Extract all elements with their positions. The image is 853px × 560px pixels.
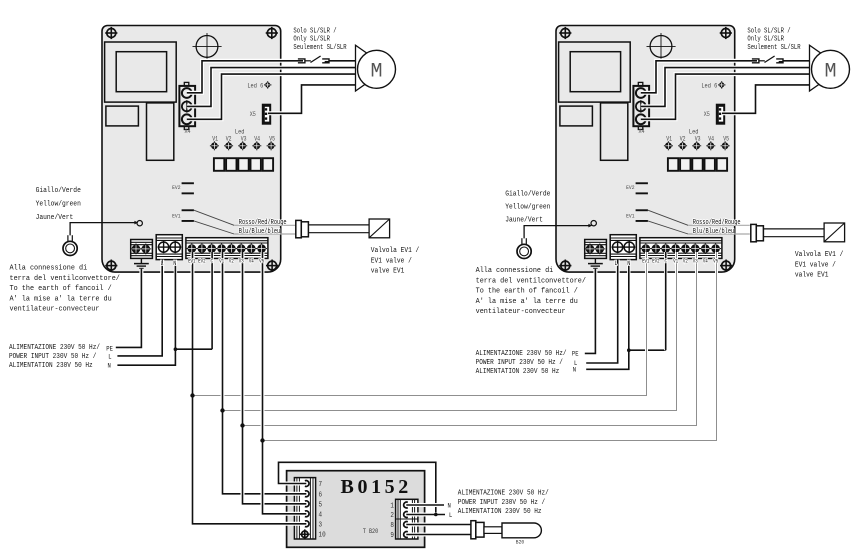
svg-text:N: N: [108, 362, 112, 370]
svg-text:PE: PE: [572, 350, 579, 358]
svg-text:Valvola EV1 /: Valvola EV1 /: [371, 247, 419, 256]
svg-text:EV2: EV2: [626, 184, 634, 190]
svg-text:Alla connessione di: Alla connessione di: [476, 267, 554, 275]
svg-text:terra del ventilconvettore/: terra del ventilconvettore/: [10, 275, 120, 283]
svg-text:Blu/Blue/bleu: Blu/Blue/bleu: [693, 227, 735, 235]
svg-text:5: 5: [319, 501, 323, 509]
svg-text:ventilateur-convecteur: ventilateur-convecteur: [10, 305, 100, 313]
svg-text:V5: V5: [713, 258, 718, 265]
svg-text:V4: V4: [249, 258, 254, 265]
svg-text:ALIMENTAZIONE 230V 50 Hz/: ALIMENTAZIONE 230V 50 Hz/: [458, 489, 549, 498]
svg-text:Jaune/Vert: Jaune/Vert: [36, 214, 74, 223]
svg-text:Seulement SL/SLR: Seulement SL/SLR: [293, 43, 346, 51]
svg-text:POWER INPUT 230V 50 Hz /: POWER INPUT 230V 50 Hz /: [476, 359, 563, 368]
svg-text:EV2: EV2: [198, 258, 206, 265]
svg-text:N: N: [573, 366, 577, 374]
svg-text:POWER INPUT 230V 50 Hz /: POWER INPUT 230V 50 Hz /: [9, 353, 96, 362]
svg-text:A' la mise a' la terre du: A' la mise a' la terre du: [476, 298, 578, 306]
svg-text:Giallo/Verde: Giallo/Verde: [505, 190, 550, 199]
svg-text:Rosso/Red/Rouge: Rosso/Red/Rouge: [693, 219, 741, 227]
svg-text:V2: V2: [229, 258, 234, 265]
svg-text:Led 6: Led 6: [701, 82, 717, 90]
svg-text:EV2: EV2: [652, 258, 660, 265]
svg-text:Giallo/Verde: Giallo/Verde: [36, 187, 81, 196]
svg-text:Seulement SL/SLR: Seulement SL/SLR: [747, 43, 800, 51]
svg-text:V1: V1: [666, 135, 672, 143]
svg-text:B0152: B0152: [341, 476, 412, 498]
svg-text:V2: V2: [226, 135, 232, 143]
svg-text:Solo SL/SLR /: Solo SL/SLR /: [293, 27, 336, 35]
svg-text:V4: V4: [703, 258, 708, 265]
svg-text:2: 2: [390, 512, 394, 520]
svg-text:V3: V3: [695, 135, 701, 143]
svg-text:Only SL/SLR: Only SL/SLR: [293, 35, 330, 43]
svg-text:V2: V2: [683, 258, 688, 265]
svg-text:L: L: [160, 259, 163, 267]
svg-text:4: 4: [319, 511, 323, 519]
svg-text:V3: V3: [241, 135, 247, 143]
svg-text:T B20: T B20: [363, 528, 378, 536]
svg-text:Jaune/Vert: Jaune/Vert: [505, 216, 543, 225]
svg-text:V4: V4: [254, 135, 260, 143]
svg-text:V3: V3: [239, 258, 244, 265]
svg-text:Valvola EV1 /: Valvola EV1 /: [795, 251, 843, 260]
svg-text:V1: V1: [212, 135, 218, 143]
svg-text:valve EV1: valve EV1: [795, 271, 829, 280]
svg-text:PE: PE: [106, 345, 113, 353]
svg-text:Led 6: Led 6: [247, 82, 263, 90]
svg-text:V5: V5: [269, 135, 275, 143]
svg-text:3: 3: [319, 521, 323, 529]
svg-text:8: 8: [390, 522, 394, 530]
svg-text:V5: V5: [259, 258, 264, 265]
svg-text:N: N: [173, 259, 176, 267]
svg-text:X4: X4: [184, 128, 191, 136]
svg-text:To the earth of fancoil /: To the earth of fancoil /: [476, 287, 578, 295]
svg-text:EV1 valve /: EV1 valve /: [795, 261, 836, 270]
svg-text:X5: X5: [250, 111, 256, 119]
svg-text:ventilateur-convecteur: ventilateur-convecteur: [476, 308, 566, 316]
svg-text:N: N: [448, 502, 452, 510]
svg-text:V4: V4: [708, 135, 714, 143]
svg-text:Blu/Blue/bleu: Blu/Blue/bleu: [239, 227, 281, 235]
svg-text:Rosso/Red/Rouge: Rosso/Red/Rouge: [239, 219, 287, 227]
svg-text:V1: V1: [219, 258, 224, 265]
svg-text:To the earth of fancoil /: To the earth of fancoil /: [10, 285, 112, 293]
svg-text:10: 10: [319, 531, 326, 539]
svg-text:C: C: [664, 258, 667, 265]
svg-text:9: 9: [390, 532, 394, 540]
svg-text:EV1: EV1: [172, 213, 180, 219]
svg-text:valve EV1: valve EV1: [371, 267, 405, 276]
svg-text:L: L: [614, 259, 617, 267]
svg-text:V5: V5: [723, 135, 729, 143]
svg-text:Alla connessione di: Alla connessione di: [10, 264, 88, 272]
svg-text:ALIMENTATION 230V 50 Hz: ALIMENTATION 230V 50 Hz: [458, 508, 542, 517]
svg-text:6: 6: [319, 491, 323, 499]
svg-text:Yellow/green: Yellow/green: [505, 203, 550, 212]
svg-text:EV1 valve /: EV1 valve /: [371, 257, 412, 266]
svg-text:EV1: EV1: [626, 213, 634, 219]
svg-text:EV1: EV1: [642, 258, 650, 265]
svg-text:ALIMENTATION 230V 50 Hz: ALIMENTATION 230V 50 Hz: [9, 362, 93, 371]
svg-text:terra del ventilconvettore/: terra del ventilconvettore/: [476, 277, 586, 285]
svg-text:POWER INPUT 230V 50 Hz /: POWER INPUT 230V 50 Hz /: [458, 498, 545, 507]
svg-text:V3: V3: [693, 258, 698, 265]
svg-text:L: L: [449, 512, 453, 520]
svg-text:V2: V2: [680, 135, 686, 143]
svg-text:EV2: EV2: [172, 184, 180, 190]
svg-text:Solo SL/SLR /: Solo SL/SLR /: [747, 27, 790, 35]
svg-text:X5: X5: [704, 111, 710, 119]
svg-text:EV1: EV1: [188, 258, 196, 265]
svg-text:X4: X4: [638, 128, 645, 136]
svg-text:V1: V1: [673, 258, 678, 265]
svg-text:C: C: [210, 258, 213, 265]
svg-text:ALIMENTATION 230V 50 Hz: ALIMENTATION 230V 50 Hz: [476, 368, 560, 377]
svg-text:B20: B20: [516, 539, 524, 545]
svg-text:Only SL/SLR: Only SL/SLR: [747, 35, 784, 43]
svg-text:A' la mise a' la terre du: A' la mise a' la terre du: [10, 295, 112, 303]
svg-text:7: 7: [319, 481, 323, 489]
svg-text:ALIMENTAZIONE 230V 50 Hz/: ALIMENTAZIONE 230V 50 Hz/: [9, 344, 100, 353]
svg-text:L: L: [108, 353, 112, 361]
svg-text:Yellow/green: Yellow/green: [36, 200, 81, 209]
svg-text:ALIMENTAZIONE 230V 50 Hz/: ALIMENTAZIONE 230V 50 Hz/: [476, 350, 567, 359]
svg-text:N: N: [627, 259, 630, 267]
svg-text:1: 1: [390, 502, 394, 510]
